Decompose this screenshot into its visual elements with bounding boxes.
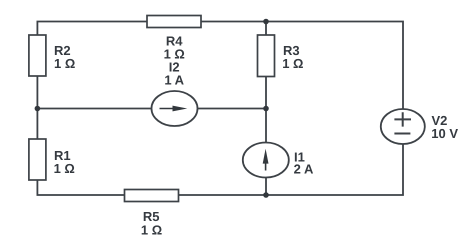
- wire top-left: left rail upper + top rail to R4: [37, 22, 147, 36]
- label V2 value: [431, 113, 458, 141]
- svg-text:2 A: 2 A: [294, 162, 314, 177]
- label R5 value: [141, 209, 162, 238]
- wire middle right (I2 to node): [198, 108, 267, 110]
- current source I2: [152, 91, 198, 126]
- svg-text:1 Ω: 1 Ω: [282, 56, 303, 71]
- node junction top (R3 / top rail): [263, 19, 269, 25]
- voltage source V2: [381, 109, 425, 144]
- current source I1: [243, 143, 289, 178]
- label R1 value: [54, 148, 75, 176]
- node junction middle (R3/I1/middle wire): [263, 106, 269, 112]
- wire bottom-left: left rail lower + bottom rail to R5: [37, 180, 124, 195]
- svg-text:1 Ω: 1 Ω: [54, 161, 75, 176]
- svg-text:1 A: 1 A: [164, 73, 184, 88]
- label R3 value: [282, 43, 303, 71]
- svg-text:10 V: 10 V: [431, 126, 458, 141]
- wire bottom-right: R5 to bottom-right corner up to V2 bottom: [179, 144, 404, 195]
- wire R3 bottom to middle node: [265, 77, 267, 109]
- svg-text:1 Ω: 1 Ω: [54, 56, 75, 71]
- resistor R4: [147, 16, 201, 28]
- wire I1 top stub: [265, 109, 267, 143]
- wire R3 top stub: [265, 22, 267, 36]
- resistor R3: [258, 35, 275, 77]
- label R4 / I2 value: [164, 33, 185, 87]
- wire top-right: R4 to top-right corner down to V2 top: [201, 22, 403, 110]
- label I1 value: [294, 150, 314, 177]
- wire left rail middle (R2 to R1): [36, 76, 38, 139]
- resistor R5: [125, 190, 179, 202]
- wire middle left (left rail to I2): [37, 108, 151, 110]
- resistor R1: [29, 139, 46, 180]
- label R2 value: [54, 43, 75, 71]
- resistor R2: [29, 35, 46, 76]
- node junction left middle: [35, 106, 41, 112]
- node junction bottom (I1 / bottom rail): [263, 192, 269, 198]
- wire I1 bottom stub: [265, 178, 267, 196]
- svg-text:1 Ω: 1 Ω: [141, 222, 162, 237]
